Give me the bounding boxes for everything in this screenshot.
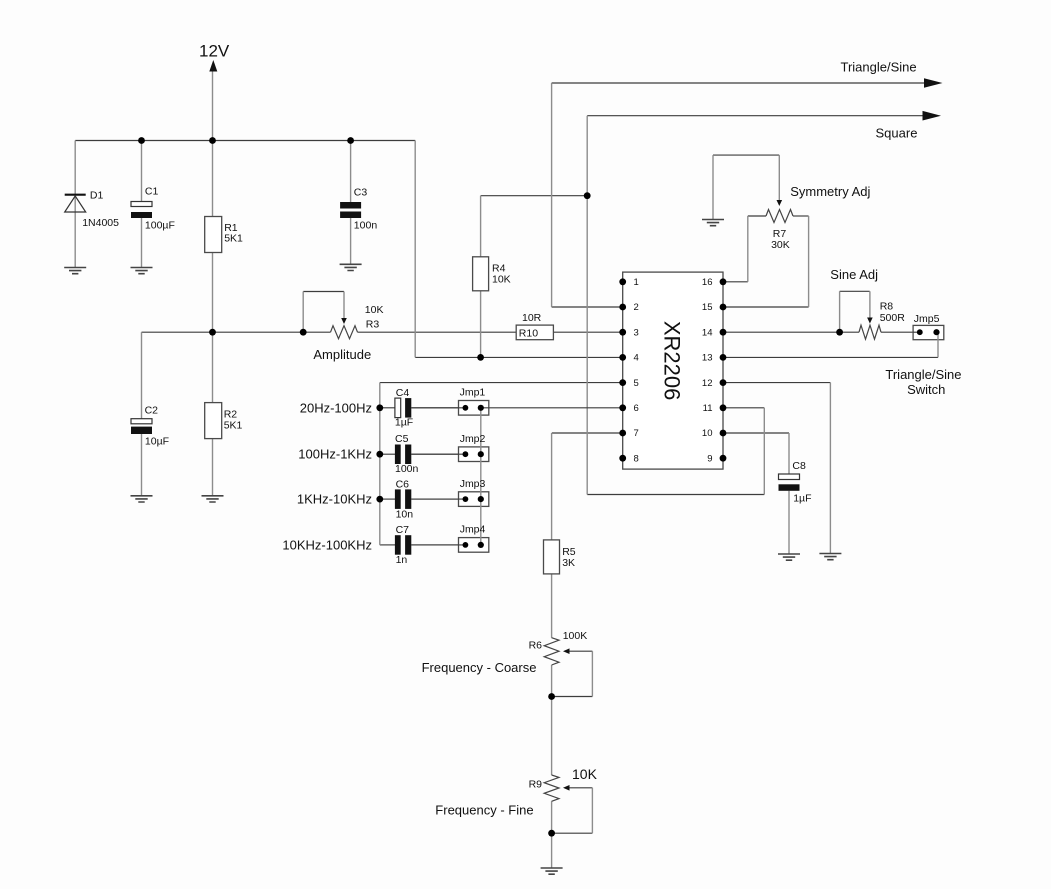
- svg-text:12V: 12V: [199, 42, 230, 61]
- svg-text:15: 15: [702, 302, 713, 313]
- svg-text:Triangle/Sine: Triangle/Sine: [885, 367, 961, 382]
- svg-text:R9: R9: [529, 779, 543, 791]
- svg-text:Amplitude: Amplitude: [313, 347, 371, 362]
- svg-text:1: 1: [634, 277, 639, 288]
- svg-text:10n: 10n: [396, 509, 414, 521]
- svg-text:C8: C8: [792, 460, 806, 472]
- svg-text:10K: 10K: [365, 304, 384, 316]
- svg-text:100µF: 100µF: [145, 220, 175, 232]
- svg-text:1µF: 1µF: [395, 417, 413, 429]
- svg-text:3: 3: [634, 327, 639, 338]
- svg-text:10µF: 10µF: [145, 436, 169, 448]
- svg-text:14: 14: [702, 327, 713, 338]
- svg-text:R8: R8: [880, 301, 894, 313]
- svg-text:500R: 500R: [880, 312, 906, 324]
- svg-text:10K: 10K: [572, 766, 598, 782]
- svg-text:6: 6: [634, 403, 639, 414]
- svg-text:Jmp2: Jmp2: [460, 433, 486, 445]
- svg-text:10: 10: [702, 428, 713, 439]
- svg-text:12: 12: [702, 378, 713, 389]
- svg-text:20Hz-100Hz: 20Hz-100Hz: [300, 400, 372, 415]
- svg-text:D1: D1: [90, 190, 104, 202]
- svg-text:1µF: 1µF: [793, 493, 811, 505]
- svg-text:10R: 10R: [522, 312, 542, 324]
- svg-text:R6: R6: [529, 640, 543, 652]
- svg-text:5K1: 5K1: [224, 233, 243, 245]
- svg-text:Frequency - Fine: Frequency - Fine: [435, 803, 533, 818]
- svg-text:9: 9: [707, 453, 712, 464]
- svg-text:2: 2: [634, 302, 639, 313]
- svg-text:Switch: Switch: [907, 382, 945, 397]
- svg-text:1KHz-10KHz: 1KHz-10KHz: [297, 492, 372, 507]
- svg-text:100n: 100n: [354, 220, 378, 232]
- svg-text:100Hz-1KHz: 100Hz-1KHz: [298, 447, 372, 462]
- svg-text:Jmp1: Jmp1: [460, 387, 486, 399]
- svg-text:Sine Adj: Sine Adj: [830, 267, 878, 282]
- svg-text:1N4005: 1N4005: [82, 217, 119, 229]
- svg-text:Frequency - Coarse: Frequency - Coarse: [422, 660, 537, 675]
- svg-text:C1: C1: [145, 186, 159, 198]
- svg-text:10K: 10K: [492, 274, 511, 286]
- svg-text:Jmp3: Jmp3: [460, 478, 486, 490]
- svg-text:5K1: 5K1: [224, 420, 243, 432]
- svg-text:C5: C5: [395, 433, 409, 445]
- svg-text:3K: 3K: [562, 557, 575, 569]
- svg-text:Square: Square: [876, 126, 918, 141]
- svg-text:C7: C7: [396, 524, 410, 536]
- svg-text:16: 16: [702, 277, 713, 288]
- svg-text:7: 7: [634, 428, 639, 439]
- svg-text:Symmetry Adj: Symmetry Adj: [790, 184, 870, 199]
- svg-text:4: 4: [634, 353, 639, 364]
- svg-text:11: 11: [703, 403, 713, 414]
- svg-text:1n: 1n: [396, 554, 408, 566]
- svg-text:Jmp5: Jmp5: [914, 313, 940, 325]
- svg-text:8: 8: [634, 453, 639, 464]
- svg-text:XR2206: XR2206: [659, 321, 684, 401]
- svg-text:C4: C4: [396, 387, 410, 399]
- svg-text:C3: C3: [354, 187, 368, 199]
- svg-text:Triangle/Sine: Triangle/Sine: [841, 60, 917, 75]
- svg-text:Jmp4: Jmp4: [460, 524, 486, 536]
- svg-text:10KHz-100KHz: 10KHz-100KHz: [282, 537, 372, 552]
- svg-text:C2: C2: [145, 405, 159, 417]
- svg-text:R10: R10: [519, 328, 538, 340]
- svg-text:R3: R3: [366, 319, 380, 331]
- svg-text:30K: 30K: [771, 239, 790, 251]
- svg-text:100n: 100n: [395, 463, 419, 475]
- svg-text:100K: 100K: [563, 630, 588, 642]
- svg-text:13: 13: [702, 353, 713, 364]
- svg-text:5: 5: [634, 378, 639, 389]
- svg-text:C6: C6: [396, 478, 410, 490]
